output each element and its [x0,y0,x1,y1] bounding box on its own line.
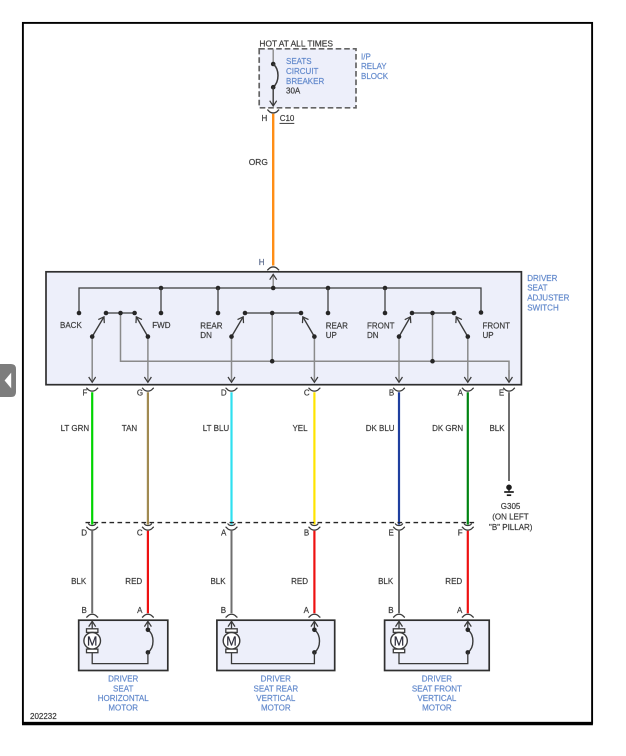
svg-text:DRIVER: DRIVER [422,675,452,684]
svg-text:I/P: I/P [361,52,371,61]
svg-text:REAR: REAR [326,322,348,331]
svg-text:BLK: BLK [71,577,87,586]
svg-text:YEL: YEL [292,424,308,433]
svg-text:H: H [259,258,265,267]
svg-text:(ON LEFT: (ON LEFT [492,513,529,522]
switch S3 blade to A [456,317,470,339]
motor M1: DRIVER SEAT HORIZONTAL MOTOR [79,620,168,670]
svg-text:C: C [304,389,310,398]
label: SEATS CIRCUIT BREAKER 30A [286,57,324,95]
motor M3 field winding [466,621,473,654]
motor M3 armature [391,621,408,652]
wire: internal feed bus [79,288,481,313]
svg-text:202232: 202232 [30,712,57,721]
svg-text:BLK: BLK [378,577,394,586]
svg-text:VERTICAL: VERTICAL [256,694,296,703]
node: return bus junctions [270,359,435,364]
switch S1 BACK/FWD contacts [77,311,164,316]
wire: terminal drop at x=147.9 [147,337,149,383]
svg-text:SEATS: SEATS [286,57,312,66]
label: REAR DN [200,322,222,340]
wire: terminal drop at x=231.5 [231,337,233,383]
switch S3 FRONT DN/FRONT UP contacts [383,310,484,315]
svg-text:FRONT: FRONT [483,322,511,331]
I/P relay block (dashed box) [259,49,356,108]
svg-text:BLK: BLK [210,577,226,586]
svg-text:VERTICAL: VERTICAL [417,694,457,703]
switch S2 REAR DN/REAR UP contacts [216,311,331,316]
wire: M3 internal return [399,652,468,663]
wire: contact drops [161,288,385,313]
pin F of switch [83,388,99,398]
svg-text:MOTOR: MOTOR [422,704,452,713]
inline connector pin A [221,523,238,537]
pin C of switch [304,388,321,398]
svg-text:DN: DN [367,331,379,340]
motor M2 field winding [312,621,319,654]
svg-text:E: E [499,389,504,398]
switch S2 blade to D [229,317,243,339]
motor M2: DRIVER SEAT REAR VERTICAL MOTOR [217,620,335,670]
wire LT GRN [91,392,93,524]
switch S2 blade to C [303,317,317,339]
wire: terminal drop at x=399 [398,337,400,383]
svg-text:RED: RED [291,577,308,586]
wire: feed entry arrow into switch [272,274,274,288]
pin D of switch [221,388,238,398]
switch S2 pole bar [243,311,304,316]
label: motor M3 caption [412,675,462,713]
pin B of M1 [81,606,98,617]
svg-text:BLK: BLK [489,424,505,433]
motor M1 field winding [146,621,153,654]
svg-text:TAN: TAN [122,424,138,433]
inline connector pin B [304,523,321,537]
wire: terminal drop at x=92.2 [91,337,93,383]
node: bus junctions [159,286,388,291]
motor M2 armature [223,621,240,652]
pin A of M3 [457,606,474,617]
switch S1 blade to F [90,317,104,339]
wire: terminal drop at x=467.8 [467,337,469,383]
inline connector pin D [81,523,98,537]
wire: common return bus to E [121,313,510,382]
svg-text:A: A [137,606,143,615]
wire: S3 pole drop [432,313,434,361]
svg-text:B: B [388,606,393,615]
node H at switch connector [259,258,279,270]
label: motor M2 caption [253,675,298,713]
svg-text:G305: G305 [501,502,521,511]
wire RED (motor lead) [313,531,315,613]
svg-text:H: H [262,114,268,123]
driver seat adjuster switch box [46,272,521,385]
svg-text:UP: UP [483,331,494,340]
svg-text:A: A [457,606,463,615]
pin A of M1 [137,606,154,617]
wire BLK (motor lead) [231,531,233,613]
svg-text:B: B [389,389,394,398]
pin E of switch [499,388,515,398]
wire BLK (motor lead) [398,531,400,613]
label: I/P RELAY BLOCK [361,52,389,81]
svg-text:G: G [137,389,143,398]
pin A of switch [458,388,474,398]
svg-text:ADJUSTER: ADJUSTER [527,294,569,303]
svg-text:MOTOR: MOTOR [261,704,291,713]
svg-text:DRIVER: DRIVER [108,675,138,684]
svg-text:SEAT: SEAT [527,284,547,293]
svg-text:SEAT FRONT: SEAT FRONT [412,684,462,693]
circuit breaker: SEATS CIRCUIT BREAKER 30A [271,50,278,107]
wire BLK to ground [508,392,510,481]
svg-text:HORIZONTAL: HORIZONTAL [98,694,150,703]
switch S1 pole bar [104,311,137,316]
inline connector dashed line [86,522,477,524]
svg-text:LT BLU: LT BLU [203,424,230,433]
connector C10, pin H [262,110,295,124]
svg-text:DK GRN: DK GRN [432,424,463,433]
wire: S2 pole drop [271,313,273,361]
wire DK BLU [398,392,400,524]
svg-text:F: F [83,389,88,398]
svg-text:RELAY: RELAY [361,62,387,71]
svg-text:B: B [221,606,226,615]
switch S3 blade to B [397,317,411,339]
switch S3 pole bar [410,311,457,316]
svg-text:HOT AT ALL TIMES: HOT AT ALL TIMES [259,39,333,49]
svg-text:ORG: ORG [249,157,268,167]
svg-text:FRONT: FRONT [367,322,395,331]
svg-text:SEAT: SEAT [113,684,133,693]
svg-text:SEAT REAR: SEAT REAR [253,684,298,693]
svg-text:CIRCUIT: CIRCUIT [286,67,319,76]
svg-text:DK BLU: DK BLU [366,424,395,433]
left nav arrow tab [0,364,16,397]
ground G305 [504,485,514,496]
svg-text:DRIVER: DRIVER [261,675,291,684]
wire: terminal drop at x=314.4 [313,337,315,383]
svg-text:C: C [137,529,143,538]
svg-text:RED: RED [445,577,462,586]
label: FRONT DN [367,322,395,340]
wire: M1 internal return [92,652,148,663]
switch S1 blade to G [136,317,150,339]
svg-text:BACK: BACK [60,321,82,330]
pin B of M3 [388,606,405,617]
wire DK GRN [467,392,469,524]
label: REAR UP [326,322,348,340]
wire TAN [147,392,149,524]
wire RED (motor lead) [147,531,149,613]
svg-text:DRIVER: DRIVER [527,274,557,283]
motor M3: DRIVER SEAT FRONT VERTICAL MOTOR [385,620,490,670]
wire: M2 internal return [232,652,315,663]
svg-text:BLOCK: BLOCK [361,72,389,81]
svg-text:30A: 30A [286,87,301,96]
svg-text:MOTOR: MOTOR [108,704,138,713]
svg-text:A: A [458,389,464,398]
svg-text:D: D [221,389,227,398]
svg-text:C10: C10 [280,114,295,123]
svg-text:RED: RED [125,577,142,586]
svg-text:FWD: FWD [152,321,170,330]
inline connector pin E [388,523,405,537]
label: G305 (ON LEFT "B" PILLAR) [489,502,533,532]
svg-text:A: A [304,606,310,615]
inline connector pin C [137,523,154,537]
wire BLK (motor lead) [91,531,93,613]
svg-text:E: E [388,529,393,538]
label: motor M1 caption [98,675,150,713]
svg-text:DN: DN [200,331,212,340]
svg-text:BREAKER: BREAKER [286,77,324,86]
svg-text:SWITCH: SWITCH [527,303,559,312]
inline connector pin F [458,523,474,537]
svg-text:UP: UP [326,331,337,340]
wire LT BLU [230,392,232,524]
pin B of M2 [221,606,238,617]
motor M1 armature [84,621,101,652]
svg-text:D: D [81,529,87,538]
pin A of M2 [304,606,321,617]
svg-text:A: A [221,529,227,538]
svg-text:B: B [81,606,86,615]
label: FRONT UP [483,322,511,340]
svg-text:LT GRN: LT GRN [61,424,90,433]
pin B of switch [389,388,405,398]
svg-text:REAR: REAR [200,322,222,331]
svg-text:F: F [458,529,463,538]
label: DRIVER SEAT ADJUSTER SWITCH [527,274,569,312]
wire YEL [313,392,315,524]
wire ORG (battery feed) [272,114,274,266]
svg-text:"B" PILLAR): "B" PILLAR) [489,523,533,532]
wire RED (motor lead) [467,531,469,613]
svg-text:B: B [304,529,309,538]
pin G of switch [137,388,154,398]
